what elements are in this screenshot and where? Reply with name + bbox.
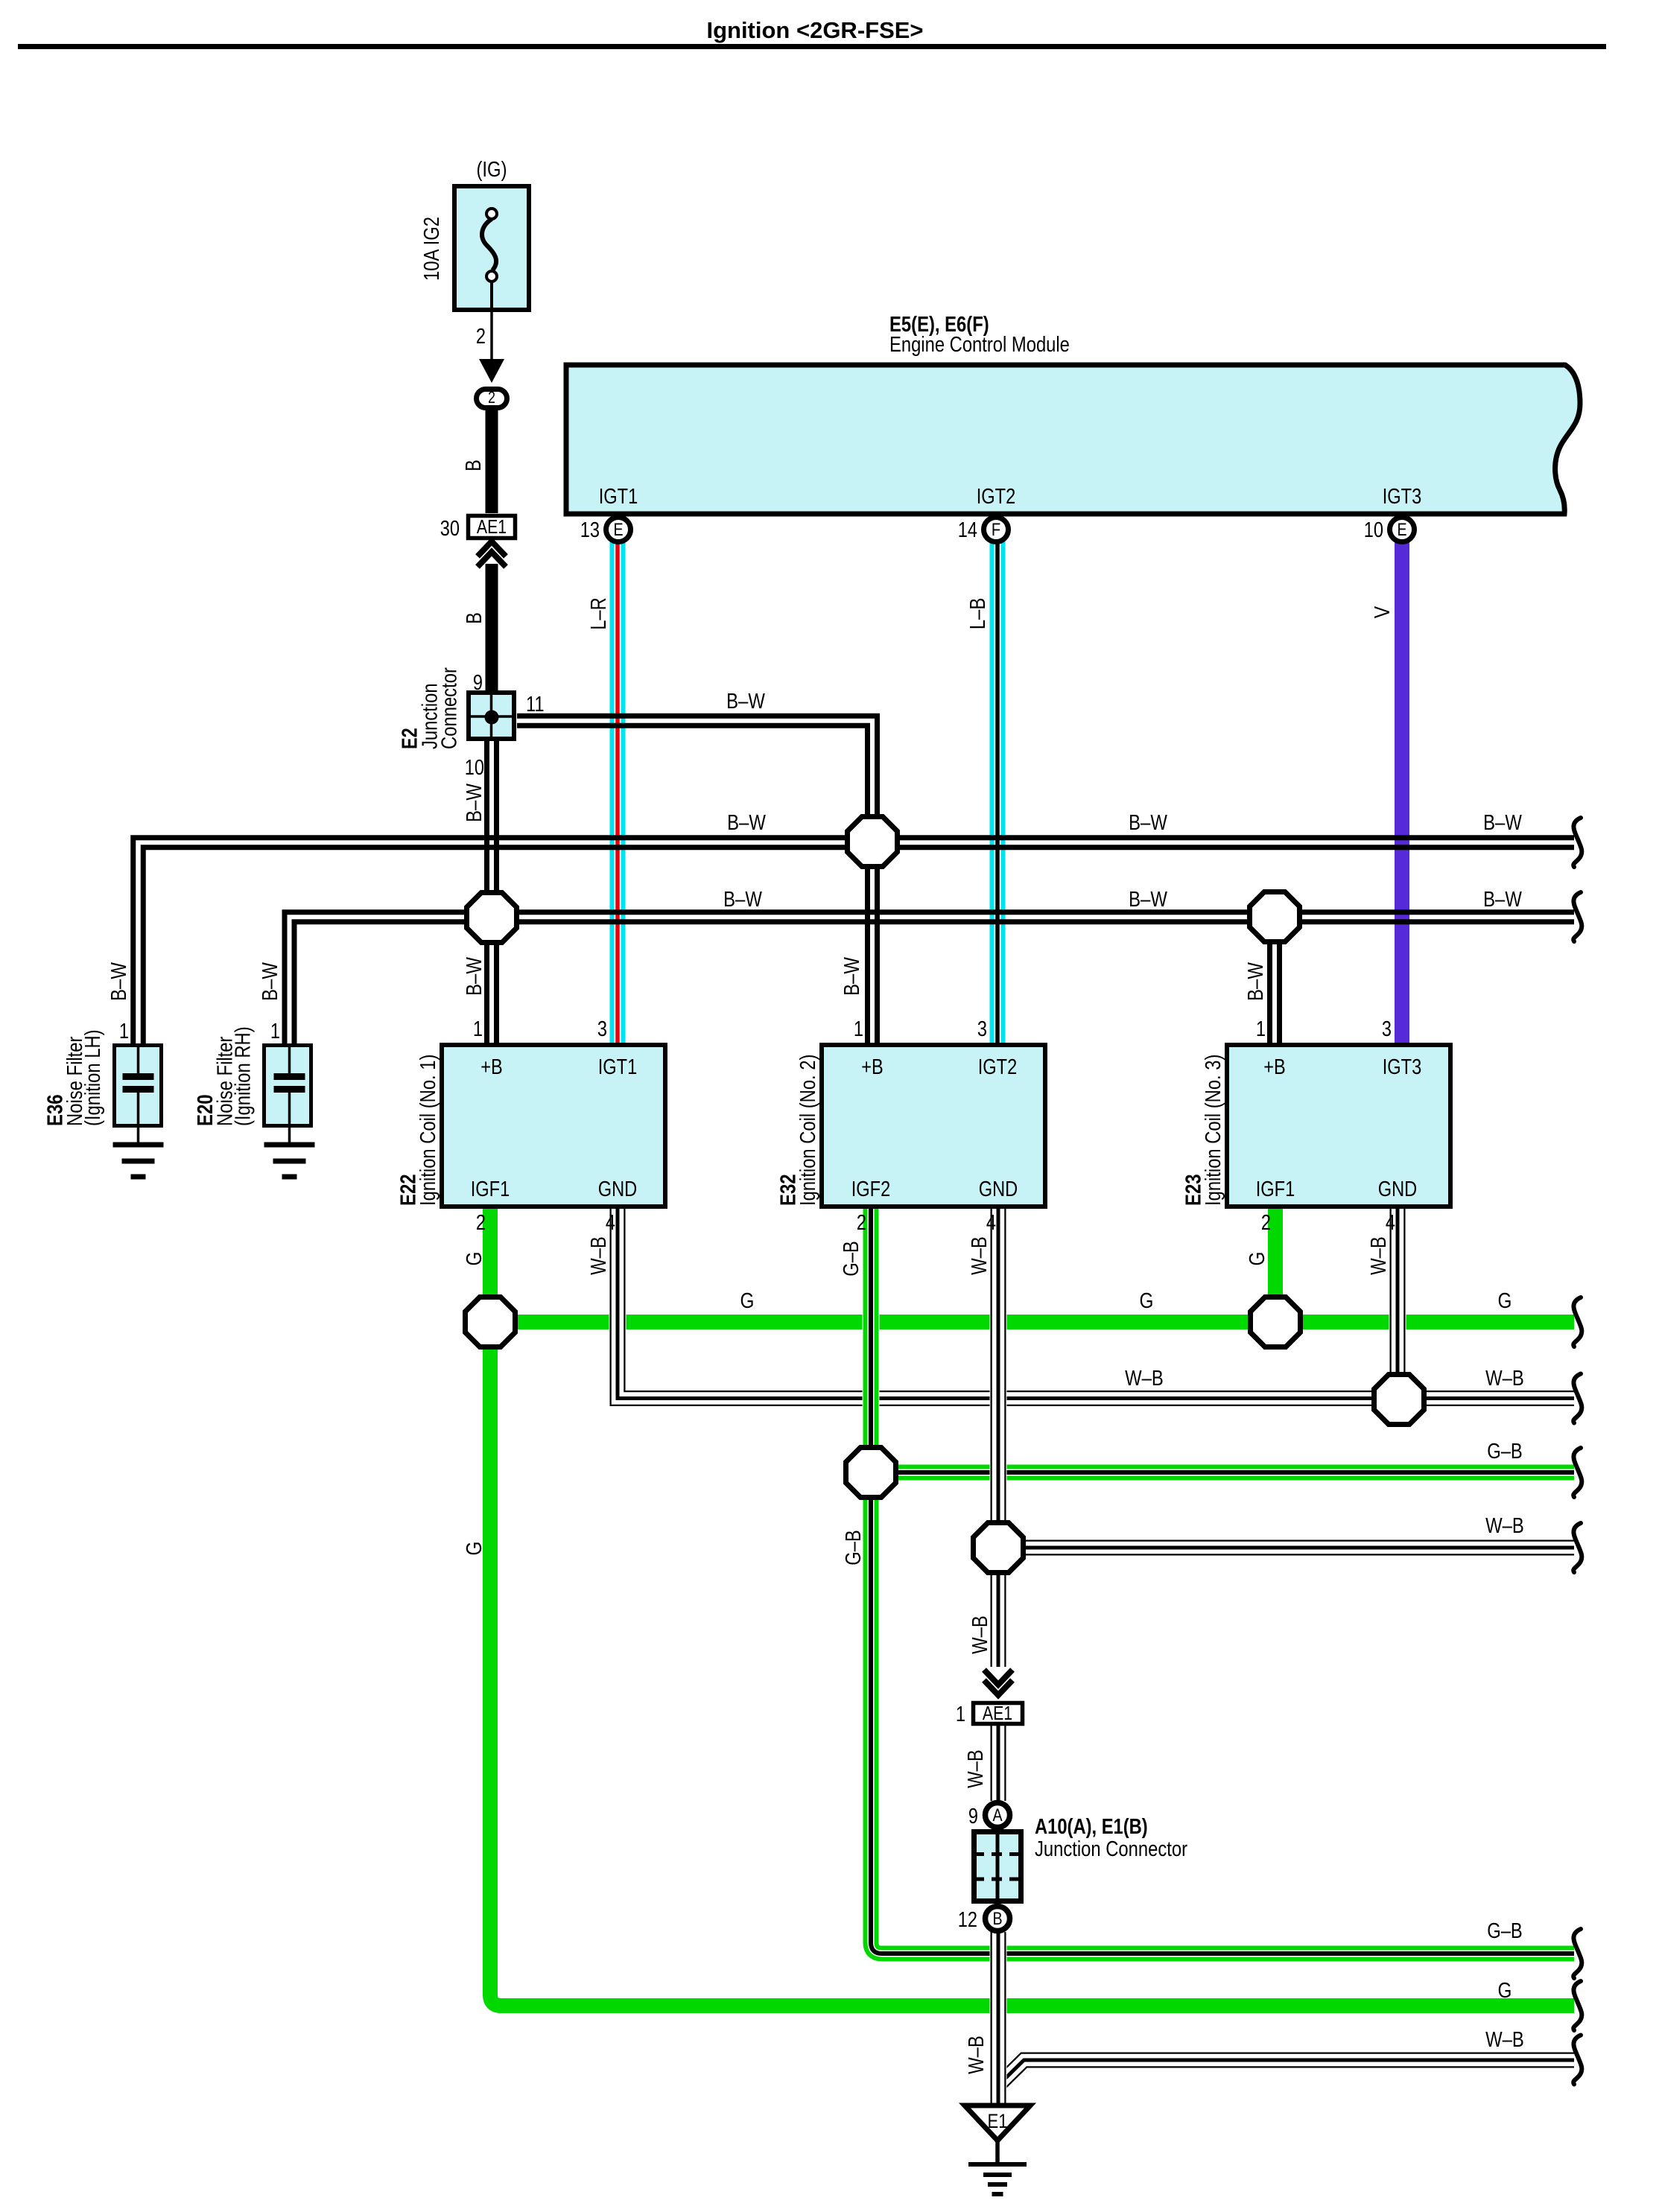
chevron arrows down bbox=[984, 1670, 1012, 1695]
continuation G-B row7 bbox=[1573, 1929, 1582, 1978]
continuation G row3 bbox=[1573, 1297, 1582, 1347]
svg-text:E: E bbox=[1397, 520, 1406, 540]
junction G-B row5 bbox=[846, 1448, 896, 1498]
svg-text:2: 2 bbox=[857, 1211, 866, 1235]
svg-text:14: 14 bbox=[958, 518, 977, 542]
wire L-R IGT1 (ECM pin 13E to coil1) bbox=[610, 541, 626, 1043]
svg-text:+B: +B bbox=[1263, 1055, 1286, 1079]
noise filter E36 bbox=[115, 1046, 162, 1126]
svg-text:2: 2 bbox=[1261, 1211, 1271, 1235]
wire B-W row2 with corner down to E20 bbox=[285, 912, 1574, 1043]
svg-text:W–B: W–B bbox=[968, 1615, 992, 1654]
svg-text:E1: E1 bbox=[987, 2110, 1007, 2132]
svg-text:Ignition Coil (No. 3): Ignition Coil (No. 3) bbox=[1202, 1055, 1225, 1206]
svg-text:B–W: B–W bbox=[1129, 888, 1167, 912]
svg-text:9: 9 bbox=[968, 1805, 978, 1828]
svg-text:3: 3 bbox=[977, 1017, 987, 1041]
svg-text:L–R: L–R bbox=[587, 597, 611, 630]
title rule bbox=[18, 44, 1606, 49]
svg-text:1: 1 bbox=[473, 1017, 483, 1041]
junction W-B row4/coil3 GND bbox=[1374, 1375, 1424, 1425]
wire G coil3 IGF1 to junction bbox=[1268, 1209, 1283, 1322]
svg-text:1: 1 bbox=[270, 1020, 280, 1043]
connector 30 AE1 bbox=[469, 516, 516, 538]
noise filter E20 bbox=[264, 1046, 311, 1126]
svg-text:Engine Control Module: Engine Control Module bbox=[889, 333, 1070, 357]
svg-text:B: B bbox=[463, 612, 486, 624]
wire W-B pin B to E1 ground bbox=[990, 1932, 1007, 2103]
svg-text:G: G bbox=[740, 1289, 755, 1313]
wire W-B coil3 GND to row4 junction bbox=[1389, 1209, 1406, 1399]
svg-text:IGT1: IGT1 bbox=[599, 485, 638, 509]
svg-text:G: G bbox=[1140, 1289, 1154, 1313]
svg-text:4: 4 bbox=[1386, 1211, 1395, 1235]
svg-text:IGF2: IGF2 bbox=[851, 1177, 891, 1201]
ground (E36) bbox=[113, 1145, 164, 1177]
svg-text:30: 30 bbox=[440, 517, 460, 541]
svg-text:B–W: B–W bbox=[258, 962, 282, 1001]
wire W-B coil1 GND to row4 bbox=[618, 1209, 1574, 1399]
ECM pin 13 E bbox=[606, 518, 631, 542]
svg-text:2: 2 bbox=[476, 325, 486, 349]
svg-text:W–B: W–B bbox=[1367, 1236, 1391, 1275]
junction row1/E2-11 bbox=[848, 817, 898, 867]
svg-text:3: 3 bbox=[597, 1017, 607, 1041]
junction G row3/coil3 IGF1 bbox=[1251, 1297, 1301, 1347]
svg-text:B–W: B–W bbox=[463, 957, 486, 996]
svg-text:W–B: W–B bbox=[1485, 1514, 1524, 1538]
wire B fuse to AE1 bbox=[486, 410, 498, 513]
pin 12 B bbox=[986, 1907, 1010, 1931]
continuation B-W row2 bbox=[1573, 892, 1582, 941]
svg-text:W–B: W–B bbox=[964, 1749, 988, 1788]
svg-text:B–W: B–W bbox=[726, 690, 765, 714]
svg-text:V: V bbox=[1371, 606, 1395, 618]
svg-text:AE1: AE1 bbox=[477, 515, 507, 538]
svg-text:12: 12 bbox=[958, 1908, 977, 1932]
junction row2/coil1 +B bbox=[467, 893, 517, 943]
ground (E20) bbox=[264, 1145, 315, 1177]
svg-text:B–W: B–W bbox=[463, 784, 486, 822]
svg-text:GND: GND bbox=[1378, 1177, 1418, 1201]
svg-text:1: 1 bbox=[1256, 1017, 1266, 1041]
svg-text:B–W: B–W bbox=[1244, 962, 1268, 1001]
continuation B-W row1 bbox=[1573, 818, 1582, 867]
svg-text:L–B: L–B bbox=[966, 598, 990, 630]
junction G row3/coil1 IGF1 bbox=[466, 1297, 516, 1347]
svg-text:3: 3 bbox=[1382, 1017, 1392, 1041]
chevron arrows up bbox=[478, 541, 506, 567]
svg-text:IGT1: IGT1 bbox=[598, 1055, 638, 1079]
svg-text:B–W: B–W bbox=[723, 888, 762, 912]
svg-text:B–W: B–W bbox=[840, 957, 864, 996]
ignition coil E22 bbox=[442, 1045, 665, 1207]
continuation W-B row6 bbox=[1573, 1523, 1582, 1572]
svg-text:GND: GND bbox=[598, 1177, 638, 1201]
svg-text:E: E bbox=[613, 520, 623, 540]
svg-text:1: 1 bbox=[956, 1703, 965, 1726]
svg-text:AE1: AE1 bbox=[983, 1702, 1012, 1724]
svg-text:B–W: B–W bbox=[1483, 888, 1522, 912]
svg-text:G–B: G–B bbox=[1487, 1440, 1523, 1463]
svg-text:G: G bbox=[1246, 1252, 1269, 1266]
wire B-W from E2 pin 10 to coil1 +B bbox=[487, 741, 497, 1043]
wire G coil1 IGF1 long run to bottom right bbox=[490, 1209, 1574, 2006]
svg-text:B: B bbox=[462, 460, 486, 471]
svg-text:10: 10 bbox=[1364, 518, 1383, 542]
svg-text:G: G bbox=[1498, 1979, 1512, 2003]
svg-text:F: F bbox=[992, 520, 1000, 540]
ignition coil E23 bbox=[1227, 1045, 1450, 1207]
wire B-W row1 with corner down to E36 bbox=[133, 838, 1574, 1043]
svg-text:10: 10 bbox=[465, 756, 484, 780]
svg-text:W–B: W–B bbox=[1485, 1367, 1524, 1391]
svg-text:A10(A), E1(B): A10(A), E1(B) bbox=[1035, 1815, 1148, 1839]
svg-text:W–B: W–B bbox=[587, 1236, 611, 1275]
junction row2/coil3 +B bbox=[1250, 892, 1300, 942]
svg-text:IGT3: IGT3 bbox=[1383, 485, 1422, 509]
continuation W-B row9 bbox=[1573, 2035, 1582, 2085]
arrowhead into connector 2 bbox=[479, 359, 504, 383]
svg-text:IGT3: IGT3 bbox=[1383, 1055, 1422, 1079]
svg-text:4: 4 bbox=[606, 1211, 615, 1235]
svg-text:B–W: B–W bbox=[1483, 811, 1522, 835]
svg-text:GND: GND bbox=[979, 1177, 1018, 1201]
svg-text:4: 4 bbox=[986, 1211, 996, 1235]
svg-text:G: G bbox=[463, 1542, 486, 1556]
svg-text:+B: +B bbox=[480, 1055, 503, 1079]
wire B AE1 to E2 bbox=[486, 564, 498, 693]
svg-text:+B: +B bbox=[861, 1055, 884, 1079]
svg-text:W–B: W–B bbox=[1485, 2028, 1524, 2052]
svg-text:11: 11 bbox=[526, 693, 545, 716]
svg-text:A: A bbox=[992, 1805, 1002, 1825]
svg-text:B–W: B–W bbox=[107, 962, 131, 1001]
svg-text:IGT2: IGT2 bbox=[978, 1055, 1018, 1079]
svg-text:Ignition <2GR-FSE>: Ignition <2GR-FSE> bbox=[706, 17, 923, 43]
wire fuse pin 2 down bbox=[490, 312, 493, 366]
continuation G-B row5 bbox=[1573, 1448, 1582, 1497]
wire B-W from row2 junction to coil3 +B bbox=[1270, 917, 1280, 1043]
junction connector A10(A) E1(B) bbox=[974, 1832, 1021, 1901]
svg-text:B–W: B–W bbox=[1129, 811, 1167, 835]
svg-text:IGF1: IGF1 bbox=[471, 1177, 510, 1201]
svg-text:G–B: G–B bbox=[840, 1241, 863, 1277]
svg-text:Junction Connector: Junction Connector bbox=[1035, 1837, 1187, 1861]
wire W-B row6 horizontal bbox=[998, 1539, 1574, 1557]
svg-text:G–B: G–B bbox=[1487, 1919, 1523, 1943]
svg-text:B: B bbox=[992, 1909, 1002, 1929]
wire L-B IGT2 (ECM pin 14F to coil2) bbox=[990, 541, 1006, 1043]
connector oval 2 bbox=[477, 390, 507, 408]
ECM pin 14 F bbox=[984, 518, 1009, 542]
svg-text:(IG): (IG) bbox=[477, 158, 507, 182]
pin 9 A bbox=[986, 1803, 1010, 1828]
svg-text:Connector: Connector bbox=[438, 667, 462, 749]
junction W-B row6 bbox=[974, 1523, 1024, 1573]
svg-text:IGT2: IGT2 bbox=[977, 485, 1016, 509]
wire G row3 horizontal bbox=[490, 1315, 1574, 1329]
ECM E5(E) E6(F) box bbox=[566, 365, 1580, 514]
continuation W-B row4 bbox=[1573, 1374, 1582, 1423]
svg-text:G: G bbox=[463, 1252, 486, 1266]
svg-text:W–B: W–B bbox=[965, 2035, 989, 2074]
continuation G row8 bbox=[1573, 1981, 1582, 2030]
ignition coil E32 bbox=[822, 1045, 1045, 1207]
svg-text:10A IG2: 10A IG2 bbox=[420, 217, 444, 281]
svg-text:Ignition Coil (No. 2): Ignition Coil (No. 2) bbox=[796, 1055, 820, 1206]
svg-text:2: 2 bbox=[476, 1211, 486, 1235]
junction connector E2 bbox=[469, 693, 514, 739]
wire W-B AE1 to pin A bbox=[990, 1726, 1007, 1801]
svg-text:W–B: W–B bbox=[1125, 1367, 1164, 1391]
svg-text:IGF1: IGF1 bbox=[1256, 1177, 1295, 1201]
wire G-B row5 horizontal bbox=[871, 1464, 1574, 1481]
wire G-B coil2 IGF2 long run to bottom right bbox=[871, 1209, 1574, 1954]
wire W-B coil2 GND down to arrow bbox=[990, 1209, 1007, 1667]
wire B-W from E2 pin 11 to coil2 +B bbox=[517, 716, 878, 1043]
svg-text:G–B: G–B bbox=[842, 1530, 866, 1566]
svg-text:(Ignition RH): (Ignition RH) bbox=[232, 1026, 256, 1126]
svg-text:W–B: W–B bbox=[968, 1236, 992, 1275]
ground E1 bbox=[965, 2105, 1030, 2141]
svg-text:1: 1 bbox=[119, 1020, 129, 1043]
svg-text:B–W: B–W bbox=[727, 811, 766, 835]
ECM pin 10 E bbox=[1390, 518, 1415, 542]
wire W-B row9 branch to bottom right bbox=[1001, 2060, 1574, 2082]
svg-text:1: 1 bbox=[854, 1017, 863, 1041]
svg-text:13: 13 bbox=[580, 518, 600, 542]
svg-text:2: 2 bbox=[488, 388, 495, 407]
connector 1 AE1 bbox=[974, 1703, 1023, 1724]
fuse 10A IG2 bbox=[454, 186, 529, 310]
svg-text:(Ignition LH): (Ignition LH) bbox=[81, 1029, 105, 1126]
wire V IGT3 (ECM pin 10E to coil3) bbox=[1395, 541, 1409, 1043]
svg-text:G: G bbox=[1498, 1289, 1512, 1313]
svg-text:Ignition Coil (No. 1): Ignition Coil (No. 1) bbox=[416, 1055, 440, 1206]
